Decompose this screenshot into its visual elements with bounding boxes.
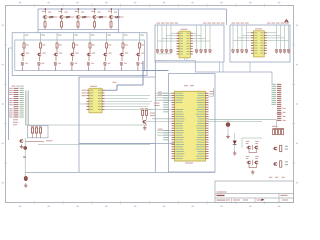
wire drop B2: [222, 62, 224, 72]
wire IC1 top feed: [105, 89, 118, 91]
capacitor group A left C3-C6: [156, 25, 172, 54]
ground cluster: [251, 170, 255, 174]
LED D9: [226, 123, 230, 127]
transistor Q4 with resistor R4: [91, 8, 107, 29]
transistor Q5 with resistor R5: [108, 8, 124, 29]
transistor Q14: [19, 139, 23, 142]
title block text: [217, 192, 289, 202]
output channel 1: resistor R10, transistor Q6, LED D1: [20, 33, 29, 71]
capacitor group B right C15-C18: [275, 25, 290, 54]
battery/ground symbol: [24, 176, 27, 181]
label IC2: [185, 162, 193, 165]
wire drop to P2 header: [271, 72, 273, 84]
wire bus drop to connector group: [226, 9, 228, 25]
net labels left of MCU: [163, 93, 168, 141]
connector header P1 (14-pin): [9, 88, 24, 118]
wire rail stub right: [118, 9, 120, 33]
junction circle: [24, 146, 27, 149]
transistor Q1 with resistor R1: [42, 8, 58, 29]
ground LED: [226, 135, 230, 139]
wire box E bottom to IC pin: [79, 143, 175, 145]
wire array to MCU box: [143, 69, 169, 71]
output channel 6: resistor R15, transistor Q11, LED D6: [103, 33, 112, 71]
labels group A bus: [157, 22, 225, 25]
driver IC4 (18-pin): [251, 31, 267, 57]
wire net to comb: [276, 120, 278, 128]
title block frame: [215, 181, 294, 203]
op-amp/driver IC1 (16-pin): [87, 88, 105, 113]
wire drop B3: [249, 62, 251, 72]
output channel 7: resistor R16, transistor Q12, LED D7: [119, 33, 128, 71]
output channel 5: resistor R14, transistor Q10, LED D5: [86, 33, 95, 71]
capacitor group A right C7-C10: [195, 25, 211, 54]
wire drop B1: [218, 62, 220, 72]
wire bus vertical upper: [154, 61, 156, 77]
wire rail stub left: [37, 9, 39, 33]
labels P1 bottom: [13, 119, 18, 125]
labels group B bus: [232, 22, 289, 25]
label P2: [277, 112, 282, 115]
net flag group B: [285, 20, 289, 23]
wires IC4 pins to caps: [233, 33, 289, 41]
transistor Q2 with resistor R2: [58, 8, 74, 29]
output channel 4: resistor R13, transistor Q9, LED D4: [70, 33, 79, 71]
ground Q14: [20, 145, 24, 149]
middle cluster transistor Q15 with resistors R21 R22: [141, 108, 149, 126]
wire bus top horizontal: [155, 60, 165, 62]
ground diode: [233, 151, 237, 155]
connector header P2 (20-pin): [272, 84, 286, 121]
wire P1 ground drop: [24, 138, 26, 146]
resistor network RN1: [272, 126, 284, 135]
ground left chain: [24, 183, 28, 187]
labels +5V near title: [269, 176, 285, 179]
label below resistor group: [46, 139, 53, 142]
net tap mark: [23, 156, 26, 159]
sub-circuit box group A: [155, 25, 224, 62]
label IC4: [255, 27, 262, 30]
wire left vertical net: [8, 48, 10, 140]
label P1 top: [12, 85, 24, 88]
label IC3: [181, 28, 188, 31]
wire MCU pin up-right: [209, 88, 214, 96]
wire cluster to MCU pin: [147, 121, 172, 123]
wire cluster top: [242, 137, 262, 139]
output channel 8: resistor R17, transistor Q13, LED D8: [136, 33, 145, 71]
wire bottom rail of driver row: [38, 28, 119, 30]
wires bus to MCU left pins: [148, 93, 172, 135]
wire horizontal bus to middle: [25, 124, 146, 126]
sub-circuit box output array (outer): [12, 33, 147, 76]
oscillator group right lower: [273, 161, 288, 167]
output channel 2: resistor R11, transistor Q7, LED D2: [37, 33, 46, 71]
wire left net stub: [9, 47, 13, 49]
sub-circuit box MCU: [169, 74, 216, 173]
microcontroller IC2 (64-pin): [172, 91, 209, 161]
wires IC1 right pins to cluster: [105, 96, 153, 110]
labels IC1 left pins: [82, 90, 86, 96]
label net above IC1: [113, 81, 117, 84]
sub-circuit box resistor group: [28, 126, 49, 138]
wire bus vertical lower: [154, 144, 156, 173]
transistor pair Q16 Q17: [246, 141, 259, 153]
sub-circuit box middle (IC1 region): [79, 77, 155, 144]
wire IC3 bottom to bus: [185, 58, 188, 61]
wire below resistor group: [25, 141, 44, 143]
wire LED to ground: [227, 127, 229, 135]
ground middle cluster: [143, 126, 147, 130]
wire box-left vertical: [78, 77, 80, 172]
driver IC3 (18-pin): [177, 31, 193, 58]
frame border with section ticks: [6, 6, 294, 203]
wire top supply bus: [38, 8, 227, 10]
wire box edge to IC1 pin: [79, 103, 87, 105]
label IC1: [90, 85, 97, 88]
labels near bus: [158, 92, 162, 96]
wire from array down: [142, 61, 144, 85]
labels above MCU: [184, 84, 194, 87]
diode D10: [233, 133, 237, 152]
labels MCU left lower pins: [150, 103, 163, 130]
wire MCU to P2 net: [209, 119, 277, 121]
oscillator group right upper: [273, 145, 288, 151]
sub-circuit box group B: [230, 25, 290, 62]
wire MCU to LED: [227, 120, 229, 123]
wire cluster drop: [241, 138, 243, 148]
wires IC3 pins to caps: [158, 33, 211, 41]
sub-circuit box output array (inner): [15, 40, 145, 71]
capacitor group B left C11-C14: [232, 25, 248, 54]
wire bundle from P1: [25, 91, 28, 126]
output channel 3: resistor R12, transistor Q8, LED D3: [53, 33, 62, 71]
wire group-A feed down: [194, 60, 196, 72]
wire ground net: [24, 150, 26, 176]
wire IC2-bottom net: [166, 59, 196, 61]
labels MCU right top pins: [210, 91, 215, 94]
wire jog to IC1: [117, 85, 143, 90]
wire bottom long net: [25, 172, 215, 174]
wire cross bus to right: [195, 71, 272, 73]
transistor pair Q18 Q19: [246, 156, 259, 168]
resistor network R18-R20: [31, 126, 42, 138]
wire to middle cluster: [38, 144, 150, 146]
wire MCU net 2: [209, 120, 263, 122]
transistor Q3 with resistor R3: [75, 8, 91, 29]
